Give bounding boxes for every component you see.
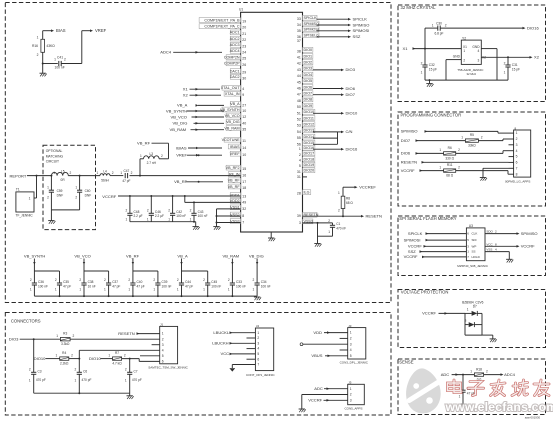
net label DIO7 bbox=[346, 92, 356, 97]
svg-text:1: 1 bbox=[463, 49, 465, 53]
svg-text:34: 34 bbox=[297, 23, 301, 27]
svg-text:1: 1 bbox=[153, 288, 155, 292]
svg-text:VB_RAM: VB_RAM bbox=[224, 127, 239, 131]
net label SSZ bbox=[353, 34, 361, 39]
svg-text:19: 19 bbox=[242, 20, 246, 24]
wire VCCRF to D7 bbox=[439, 312, 466, 314]
net label VB_DIG bbox=[173, 121, 188, 126]
svg-text:CON5_APPS: CON5_APPS bbox=[345, 407, 363, 411]
wire LBUCKL to J4 bbox=[230, 332, 256, 334]
svg-text:DIO9: DIO9 bbox=[304, 104, 313, 108]
wire SPIMOSI net bbox=[317, 30, 352, 33]
wire R7 to J1 pin6 bbox=[122, 358, 160, 362]
svg-text:100 nF: 100 nF bbox=[261, 284, 271, 288]
svg-text:C1: C1 bbox=[336, 222, 340, 226]
ground for VSS3 bbox=[314, 244, 321, 247]
svg-text:1: 1 bbox=[128, 288, 130, 292]
wire X1 to XTAL_OUT bbox=[190, 88, 221, 91]
svg-text:R5: R5 bbox=[470, 133, 474, 137]
svg-text:47 pF: 47 pF bbox=[112, 284, 120, 288]
wire X1 to crystal bbox=[413, 48, 462, 50]
svg-text:2.2kΩ: 2.2kΩ bbox=[60, 362, 69, 366]
net label SPICLK bbox=[353, 17, 368, 22]
wire VSS to ground bbox=[485, 248, 509, 260]
capacitor C31 15 pF bbox=[504, 57, 520, 80]
net label DIO10 second bbox=[89, 356, 101, 361]
capacitor C39 100 nF bbox=[153, 271, 171, 296]
wire J3 pin4 stub bbox=[340, 349, 348, 351]
capacitor C45 100 nF bbox=[203, 271, 221, 296]
svg-text:C38: C38 bbox=[88, 280, 94, 284]
svg-text:1: 1 bbox=[30, 288, 32, 292]
svg-text:LBUCKH: LBUCKH bbox=[212, 341, 228, 346]
net label SPIMOSI bbox=[353, 28, 370, 33]
svg-text:VBUS: VBUS bbox=[311, 353, 322, 358]
svg-text:SDI: SDI bbox=[472, 238, 477, 242]
svg-text:DIO16: DIO16 bbox=[304, 146, 315, 150]
svg-text:T1: T1 bbox=[16, 188, 20, 192]
svg-text:1: 1 bbox=[104, 288, 106, 292]
wire DIO6 to R6 bbox=[416, 152, 444, 154]
svg-text:C33: C33 bbox=[236, 280, 242, 284]
svg-text:470 pF: 470 pF bbox=[36, 378, 46, 382]
capacitor C44 47 pF bbox=[177, 271, 193, 296]
watermark url elecfans bbox=[445, 400, 553, 414]
svg-text:DIO5: DIO5 bbox=[304, 79, 313, 83]
wire SSZ net bbox=[317, 36, 352, 39]
net label DIO3 bbox=[346, 67, 356, 72]
wire VB_RF lower net bbox=[186, 181, 223, 183]
svg-text:2: 2 bbox=[162, 337, 164, 341]
svg-text:CLK: CLK bbox=[472, 232, 478, 236]
svg-text:C/N: C/N bbox=[346, 129, 353, 134]
svg-text:CONNECTORS: CONNECTORS bbox=[11, 319, 41, 324]
svg-text:DNF: DNF bbox=[85, 194, 92, 198]
svg-text:2: 2 bbox=[338, 209, 340, 213]
svg-text:1: 1 bbox=[29, 379, 31, 383]
connector J4 CONT_OP1_JENNIC bbox=[246, 324, 276, 377]
resistor R11 68 Ω bbox=[439, 163, 460, 177]
capacitor C35 47 pF bbox=[55, 271, 71, 296]
connector J1 SAMTEC_TSM_SW_JENNIC bbox=[148, 323, 188, 370]
svg-text:6: 6 bbox=[516, 161, 518, 165]
svg-text:DIO19: DIO19 bbox=[304, 163, 315, 167]
wire crystal ground rail bbox=[425, 79, 508, 84]
wire D7 loop bbox=[465, 313, 493, 339]
svg-text:32 MHZ CRYSTAL: 32 MHZ CRYSTAL bbox=[401, 5, 437, 10]
svg-text:IBIAS: IBIAS bbox=[230, 145, 240, 149]
svg-text:DIO12: DIO12 bbox=[304, 123, 315, 127]
svg-text:15: 15 bbox=[242, 167, 246, 171]
net label VB_RF row bbox=[126, 253, 140, 258]
svg-text:C39: C39 bbox=[162, 280, 168, 284]
capacitor C2 sense bbox=[459, 375, 475, 404]
svg-text:35: 35 bbox=[242, 128, 246, 132]
svg-text:2: 2 bbox=[125, 368, 127, 372]
svg-text:2: 2 bbox=[70, 171, 72, 175]
svg-text:VDD1: VDD1 bbox=[230, 193, 240, 197]
svg-text:DIO16: DIO16 bbox=[346, 147, 358, 152]
wire VSS3 right bbox=[303, 222, 333, 224]
svg-text:1: 1 bbox=[350, 387, 352, 391]
svg-text:VB_RF: VB_RF bbox=[228, 179, 241, 183]
wire T1 to trunk bbox=[34, 176, 37, 198]
svg-text:2: 2 bbox=[228, 278, 230, 282]
optional matching circuit dashed box bbox=[43, 145, 96, 229]
svg-text:46: 46 bbox=[297, 87, 301, 91]
net label VB_RAM bbox=[170, 127, 187, 132]
svg-text:BIAS: BIAS bbox=[56, 28, 66, 33]
svg-text:40: 40 bbox=[242, 121, 246, 125]
svg-text:SS: SS bbox=[472, 250, 476, 254]
ground triangle for J4 bbox=[230, 368, 235, 371]
svg-text:2: 2 bbox=[128, 278, 130, 282]
svg-text:3: 3 bbox=[350, 398, 352, 402]
svg-text:3: 3 bbox=[257, 341, 259, 345]
svg-text:2.7 nH: 2.7 nH bbox=[147, 161, 157, 165]
svg-text:1: 1 bbox=[147, 217, 149, 221]
transformer T1 TF_JENNIC bbox=[16, 188, 35, 218]
svg-text:DAC2: DAC2 bbox=[230, 75, 240, 79]
svg-text:L4: L4 bbox=[103, 170, 107, 174]
svg-text:2: 2 bbox=[190, 209, 192, 213]
svg-text:1: 1 bbox=[516, 131, 518, 135]
svg-text:5: 5 bbox=[257, 352, 259, 356]
svg-text:2: 2 bbox=[516, 137, 518, 141]
svg-text:3: 3 bbox=[162, 343, 164, 347]
diode D7 upper zener bbox=[465, 308, 482, 316]
svg-text:10: 10 bbox=[242, 153, 246, 157]
net label DIO16 crystal bbox=[527, 25, 539, 30]
capacitor C33 100 nF bbox=[228, 271, 246, 296]
svg-text:47 pF: 47 pF bbox=[63, 284, 71, 288]
resistor R4 2.2kΩ bbox=[56, 351, 74, 366]
svg-text:C34: C34 bbox=[261, 280, 267, 284]
net label VCCREF bbox=[359, 185, 376, 190]
ground for VS row bbox=[254, 297, 261, 300]
svg-text:1: 1 bbox=[79, 288, 81, 292]
svg-text:www.elecfans.com: www.elecfans.com bbox=[445, 400, 553, 414]
svg-text:C44: C44 bbox=[185, 280, 191, 284]
sense title bbox=[399, 360, 413, 365]
svg-text:1: 1 bbox=[459, 394, 461, 398]
net label DIO10 bbox=[346, 111, 358, 116]
wire crystal pin4 to rail bbox=[481, 49, 497, 81]
svg-text:9: 9 bbox=[242, 93, 244, 97]
svg-text:SPISEL0: SPISEL0 bbox=[304, 34, 319, 38]
svg-text:50: 50 bbox=[297, 105, 301, 109]
svg-text:C45: C45 bbox=[211, 280, 217, 284]
wire SDO to SPIMISO bbox=[485, 230, 520, 235]
svg-text:1: 1 bbox=[177, 288, 179, 292]
svg-text:1: 1 bbox=[461, 135, 463, 139]
svg-text:35: 35 bbox=[297, 29, 301, 33]
svg-text:SPIMISO: SPIMISO bbox=[521, 231, 538, 236]
svg-text:4: 4 bbox=[350, 348, 352, 352]
ground in protection box bbox=[490, 339, 497, 342]
capacitor C1 470 nF bbox=[318, 219, 347, 236]
svg-text:1: 1 bbox=[228, 288, 230, 292]
voltage protection title bbox=[401, 290, 449, 295]
svg-text:4: 4 bbox=[242, 87, 244, 91]
capacitor C32 15 pF bbox=[421, 49, 437, 81]
svg-text:470 pF: 470 pF bbox=[82, 378, 92, 382]
net label IBIAS bbox=[176, 145, 187, 150]
svg-text:2: 2 bbox=[75, 368, 77, 372]
svg-text:C31: C31 bbox=[512, 63, 518, 67]
resistor R18 0.0 bbox=[470, 367, 488, 381]
wire IBIAS net bbox=[188, 147, 222, 150]
svg-text:47: 47 bbox=[297, 93, 301, 97]
svg-text:C30: C30 bbox=[436, 21, 442, 25]
wire ADC4 to pin 24 bbox=[173, 51, 222, 54]
svg-text:29: 29 bbox=[242, 71, 246, 75]
svg-text:1: 1 bbox=[140, 154, 142, 158]
wire crystal pin2 to rail bbox=[446, 60, 461, 81]
svg-text:1: 1 bbox=[253, 288, 255, 292]
svg-text:68 Ω: 68 Ω bbox=[346, 201, 353, 205]
programming connector title bbox=[401, 112, 462, 117]
connectors title bbox=[11, 319, 41, 324]
capacitor C48 2.2 µF bbox=[126, 196, 143, 222]
svg-text:1: 1 bbox=[504, 70, 506, 74]
svg-text:5: 5 bbox=[162, 354, 164, 358]
svg-text:VB_VCO: VB_VCO bbox=[225, 114, 240, 118]
svg-text:2: 2 bbox=[124, 353, 126, 357]
wire L3 to RF trunk bbox=[139, 159, 144, 177]
capacitor C47 47 pF bbox=[120, 169, 132, 183]
svg-text:5: 5 bbox=[350, 354, 352, 358]
svg-text:470 nF: 470 nF bbox=[336, 227, 346, 231]
wire J2 pin7 to ground bbox=[483, 168, 509, 177]
sense dashed box bbox=[398, 359, 546, 415]
svg-text:3: 3 bbox=[478, 59, 480, 63]
connector J3 CON3_DPL_JENNIC bbox=[340, 324, 369, 365]
resistor R8 68 Ω bbox=[338, 191, 353, 212]
svg-text:1: 1 bbox=[439, 148, 441, 152]
svg-text:2: 2 bbox=[299, 153, 301, 157]
svg-text:U1: U1 bbox=[239, 8, 243, 12]
svg-text:2: 2 bbox=[463, 59, 465, 63]
svg-text:37: 37 bbox=[297, 39, 301, 43]
wire cap bank ground bus bbox=[130, 221, 196, 227]
svg-text:1: 1 bbox=[37, 36, 39, 40]
wire C41 to VREF bbox=[61, 31, 90, 64]
svg-text:DNF: DNF bbox=[57, 194, 64, 198]
net label LBUCKL bbox=[213, 330, 232, 335]
crystal Y2 T58-A22R bbox=[453, 36, 486, 76]
svg-text:16: 16 bbox=[242, 174, 246, 178]
wire VDD2 branch bbox=[185, 196, 241, 203]
svg-text:VREF: VREF bbox=[230, 152, 241, 156]
net label SPIMISO flash bbox=[521, 231, 538, 236]
wire VCC to J4 bbox=[230, 353, 256, 355]
net label VB_A row bbox=[177, 253, 188, 258]
net label RESETN right bbox=[366, 214, 382, 219]
wire DIO7 net bbox=[313, 93, 344, 96]
svg-text:2: 2 bbox=[486, 369, 488, 373]
svg-text:ADC4: ADC4 bbox=[160, 50, 172, 55]
svg-text:RESETN: RESETN bbox=[366, 214, 382, 219]
net label VCCRF prog bbox=[401, 168, 423, 173]
capacitor C40 47 pF bbox=[128, 271, 144, 296]
wire SPICLK net bbox=[317, 18, 352, 21]
svg-text:43: 43 bbox=[297, 68, 301, 72]
svg-text:DIO3: DIO3 bbox=[304, 67, 313, 71]
net label VCCRF flash a bbox=[408, 244, 422, 249]
svg-text:0R: 0R bbox=[61, 178, 66, 182]
svg-text:100 nF: 100 nF bbox=[162, 284, 172, 288]
inductor L4 56nH bbox=[97, 170, 114, 183]
net label SPICLK flash bbox=[408, 231, 423, 236]
svg-text:1: 1 bbox=[56, 334, 58, 338]
capacitor C41 100 nF bbox=[43, 56, 66, 70]
svg-text:11: 11 bbox=[242, 139, 246, 143]
svg-text:2: 2 bbox=[147, 209, 149, 213]
net label DIO16 bbox=[346, 147, 358, 152]
connector J2 programming header bbox=[505, 126, 531, 183]
svg-text:17: 17 bbox=[242, 180, 246, 184]
svg-text:C41: C41 bbox=[57, 56, 63, 60]
inductor L3 2.7 nH bbox=[140, 152, 163, 165]
svg-text:SPIMISO: SPIMISO bbox=[401, 129, 418, 134]
svg-text:33kΩ: 33kΩ bbox=[468, 144, 476, 148]
svg-text:DIO18: DIO18 bbox=[304, 157, 315, 161]
svg-text:VB_RAM: VB_RAM bbox=[170, 127, 187, 132]
svg-text:2: 2 bbox=[481, 135, 483, 139]
wire VB_SYNTH to chip bbox=[187, 110, 224, 113]
svg-text:6: 6 bbox=[162, 360, 164, 364]
net label LBUCKH bbox=[212, 341, 232, 346]
resistor R16 43K bbox=[32, 36, 55, 58]
svg-text:2: 2 bbox=[168, 209, 170, 213]
svg-text:26: 26 bbox=[242, 63, 246, 67]
wire conn caps ground bus bbox=[34, 392, 130, 396]
svg-text:DIO10: DIO10 bbox=[304, 110, 315, 114]
svg-text:2: 2 bbox=[203, 278, 205, 282]
svg-text:2.2 µF: 2.2 µF bbox=[155, 214, 164, 218]
svg-text:SSZ: SSZ bbox=[408, 249, 416, 254]
wire VB_RF drop bbox=[132, 259, 158, 272]
wire VCCRF rail to VDD1 bbox=[118, 195, 241, 197]
svg-text:SPIMOSI: SPIMOSI bbox=[353, 28, 370, 33]
svg-text:1: 1 bbox=[47, 186, 49, 190]
voltage protection dashed box bbox=[398, 290, 546, 348]
svg-text:41: 41 bbox=[297, 56, 301, 60]
svg-text:10 nF: 10 nF bbox=[88, 284, 96, 288]
flash U3 M25P40 body bbox=[457, 224, 489, 268]
svg-text:DIO20: DIO20 bbox=[304, 169, 315, 173]
svg-text:2: 2 bbox=[29, 368, 31, 372]
svg-text:3.3kΩ: 3.3kΩ bbox=[61, 342, 70, 346]
svg-text:49: 49 bbox=[242, 200, 246, 204]
wire VCCRF to R11 bbox=[420, 170, 444, 172]
svg-text:25: 25 bbox=[242, 57, 246, 61]
svg-text:X1: X1 bbox=[183, 87, 189, 92]
svg-text:1: 1 bbox=[53, 171, 55, 175]
wire J4 pin2 stub bbox=[247, 337, 256, 339]
svg-text:DIO1: DIO1 bbox=[304, 54, 313, 58]
svg-text:15 pF: 15 pF bbox=[429, 68, 437, 72]
matching circuit title bbox=[46, 149, 64, 164]
svg-text:C35: C35 bbox=[63, 280, 69, 284]
net label DIO6 prog bbox=[401, 151, 419, 156]
svg-text:1: 1 bbox=[108, 353, 110, 357]
svg-text:VCCRF: VCCRF bbox=[102, 194, 116, 199]
svg-text:38: 38 bbox=[297, 49, 301, 53]
svg-text:2: 2 bbox=[153, 278, 155, 282]
svg-text:51: 51 bbox=[297, 111, 301, 115]
inductor L5 0R bbox=[52, 170, 72, 183]
wire VB_VCO drop bbox=[83, 259, 109, 272]
svg-text:VCCREF: VCCREF bbox=[359, 185, 376, 190]
svg-text:56: 56 bbox=[297, 142, 301, 146]
net label VCCRF protection bbox=[422, 311, 447, 316]
svg-text:ADC4: ADC4 bbox=[230, 49, 240, 53]
wire VCCRF to J5 bbox=[324, 399, 348, 401]
svg-text:42: 42 bbox=[297, 62, 301, 66]
svg-text:C43: C43 bbox=[198, 210, 204, 214]
wire C30 to DIO16 bbox=[440, 27, 525, 30]
wire VB_RF upper to L3 bbox=[152, 143, 169, 159]
svg-text:1: 1 bbox=[439, 165, 441, 169]
svg-text:VB_SYNTH: VB_SYNTH bbox=[166, 108, 187, 113]
svg-text:ADC: ADC bbox=[314, 386, 323, 391]
svg-text:ILG: ILG bbox=[304, 191, 310, 195]
svg-text:SDO: SDO bbox=[486, 230, 493, 234]
capacitor C6 470 pF bbox=[75, 359, 92, 394]
svg-text:C7: C7 bbox=[134, 369, 138, 373]
svg-text:4: 4 bbox=[162, 348, 164, 352]
svg-text:2.2 µF: 2.2 µF bbox=[134, 214, 143, 218]
net label VCC bbox=[221, 351, 233, 356]
svg-text:ADC4: ADC4 bbox=[504, 372, 516, 377]
svg-text:SAMTEC_TSM_SW_JENNIC: SAMTEC_TSM_SW_JENNIC bbox=[148, 366, 188, 370]
main RF section dashed border bbox=[5, 3, 391, 303]
wire matching ground bus bbox=[51, 210, 79, 221]
svg-text:7: 7 bbox=[516, 166, 518, 170]
svg-text:DIO7: DIO7 bbox=[346, 92, 356, 97]
wire VB_SYNTH drop bbox=[33, 259, 59, 272]
svg-text:IBIAS: IBIAS bbox=[176, 145, 187, 150]
svg-text:C42: C42 bbox=[176, 210, 182, 214]
svg-text:VDD: VDD bbox=[313, 330, 322, 335]
svg-text:DIO13: DIO13 bbox=[304, 129, 315, 133]
ground in flash box bbox=[506, 259, 513, 262]
svg-text:VB_A: VB_A bbox=[177, 103, 188, 108]
wire R11 to J2 pin8 bbox=[456, 171, 509, 175]
svg-text:VB_VCO: VB_VCO bbox=[74, 253, 90, 258]
svg-text:5: 5 bbox=[516, 155, 518, 159]
svg-text:R6: R6 bbox=[448, 146, 452, 150]
wire VCC to VCCRF bbox=[485, 242, 520, 247]
svg-text:SENSE: SENSE bbox=[399, 360, 413, 365]
wire VREF net bbox=[187, 154, 222, 157]
connector J5 CON5_APPS bbox=[345, 381, 365, 411]
wire DIO3 to R3 bbox=[20, 338, 61, 340]
capacitor C37 47 pF bbox=[104, 271, 120, 296]
svg-text:48: 48 bbox=[297, 99, 301, 103]
svg-text:L5: L5 bbox=[61, 170, 65, 174]
svg-text:CONT_OP1_JENNIC: CONT_OP1_JENNIC bbox=[246, 373, 276, 377]
wire VB_DIG drop bbox=[256, 259, 258, 272]
svg-text:DIO4: DIO4 bbox=[304, 73, 313, 77]
flash U3 left pins and wires bbox=[420, 232, 481, 259]
wire crystal pin3 to X2 bbox=[481, 56, 532, 59]
svg-text:VB_DIG: VB_DIG bbox=[226, 120, 240, 124]
wire R18 to ADC4 bbox=[484, 373, 504, 376]
wire VS ground bus bbox=[34, 295, 257, 297]
